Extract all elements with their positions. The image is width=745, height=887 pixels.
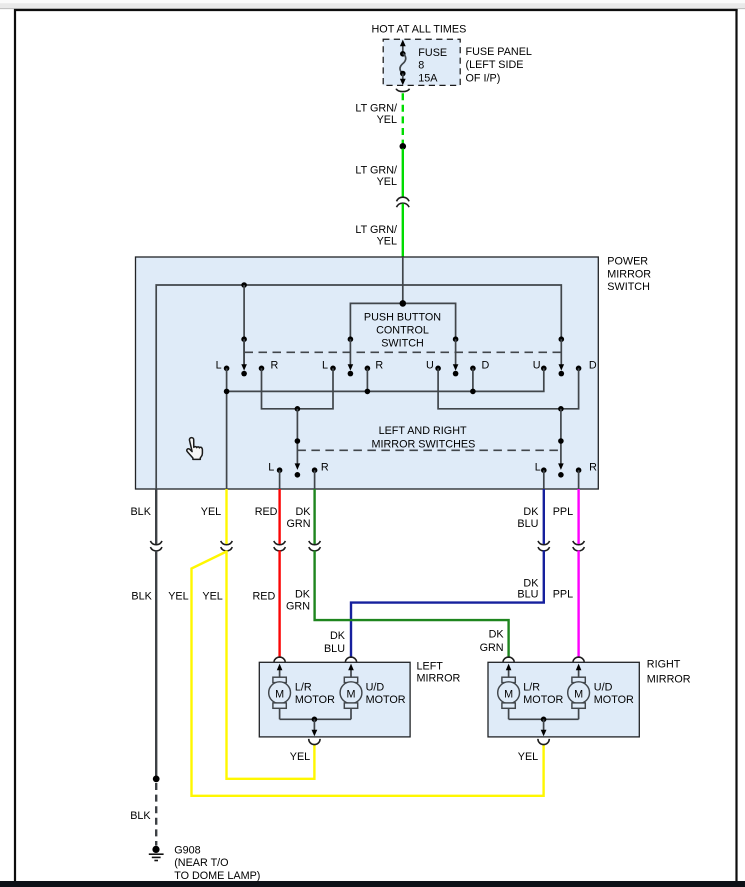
push button control switch bracket	[350, 303, 455, 339]
contact R1	[259, 366, 265, 372]
U/D motor right mirror	[568, 664, 590, 720]
frame top border	[14, 9, 738, 11]
wire: LT GRN/YEL solid into switch	[402, 204, 404, 258]
fuse F8 symbol	[400, 40, 406, 86]
bottom contact R (left mirror switch)	[312, 467, 318, 473]
svg-text:RIGHT: RIGHT	[647, 659, 681, 671]
svg-text:SWITCH: SWITCH	[381, 337, 424, 349]
svg-text:R: R	[321, 461, 329, 473]
node left mirror common	[312, 717, 318, 723]
wire: R2 riser	[366, 368, 368, 391]
svg-text:(NEAR T/O: (NEAR T/O	[174, 857, 228, 869]
svg-text:GRN: GRN	[480, 642, 504, 654]
svg-text:YEL: YEL	[168, 591, 188, 603]
svg-text:D: D	[482, 360, 490, 372]
wire BLK lower	[155, 550, 157, 776]
svg-text:DK: DK	[489, 628, 505, 640]
svg-text:HOT AT ALL TIMES: HOT AT ALL TIMES	[372, 23, 467, 35]
contact U1	[435, 366, 441, 372]
svg-text:YEL: YEL	[377, 114, 397, 126]
pole 4 pivot, arrow, contact	[559, 336, 565, 342]
wire BLK upper	[155, 489, 157, 544]
svg-text:M: M	[275, 688, 284, 700]
pole 3 pivot, arrow, contact	[453, 336, 459, 342]
svg-text:U: U	[426, 360, 434, 372]
wire DK GRN to right mirror L/R	[315, 550, 509, 658]
svg-text:PUSH BUTTON: PUSH BUTTON	[364, 312, 441, 324]
svg-text:MIRROR: MIRROR	[647, 674, 691, 686]
wire BLK dashed to ground	[155, 783, 157, 846]
svg-text:MOTOR: MOTOR	[366, 694, 406, 706]
wire YEL branch to right mirror	[192, 552, 544, 796]
contact L1	[224, 366, 230, 372]
svg-text:POWER: POWER	[607, 255, 648, 267]
svg-text:LEFT AND RIGHT: LEFT AND RIGHT	[379, 425, 467, 437]
wire: DK GRN exit stub	[314, 470, 316, 489]
left mirror box	[259, 662, 410, 737]
wire: inner top bus with corners	[156, 285, 561, 489]
svg-text:YEL: YEL	[290, 751, 310, 763]
L/R motor right mirror	[498, 664, 520, 720]
svg-text:L: L	[268, 461, 274, 473]
mirror select pole left	[296, 409, 298, 464]
contact R2	[365, 366, 371, 372]
mouse hand cursor	[187, 438, 203, 460]
svg-text:OF I/P): OF I/P)	[466, 72, 501, 84]
svg-text:L: L	[535, 461, 541, 473]
wire: left mirror common bus	[280, 718, 351, 720]
splice node on LT GRN/YEL	[400, 143, 407, 150]
bottom dark taskbar	[0, 881, 745, 887]
splice node on BLK	[153, 776, 160, 783]
wire: feed inside switch box	[402, 257, 404, 303]
svg-text:GRN: GRN	[287, 518, 311, 530]
connector on RED	[274, 541, 286, 545]
svg-text:DK: DK	[523, 506, 539, 518]
svg-text:(LEFT SIDE: (LEFT SIDE	[466, 59, 524, 71]
svg-text:LT GRN/: LT GRN/	[355, 102, 397, 114]
wire DK BLU upper	[543, 489, 545, 544]
pole 1 pivot, arrow, contact	[241, 336, 247, 342]
svg-text:MIRROR: MIRROR	[417, 673, 461, 685]
svg-text:YEL: YEL	[377, 236, 397, 248]
svg-text:L: L	[322, 360, 328, 372]
wire: PPL exit stub	[578, 470, 580, 489]
connector on BLK	[150, 541, 162, 545]
frame right border	[735, 9, 737, 881]
bus 1 L1-R2-D1-U2	[227, 368, 544, 391]
wire: RED exit stub	[279, 470, 281, 489]
svg-text:CONTROL: CONTROL	[376, 325, 429, 337]
bus 2 left R1-L2	[262, 368, 334, 409]
svg-text:FUSE PANEL: FUSE PANEL	[466, 46, 532, 58]
wire PPL upper	[577, 489, 579, 544]
svg-text:M: M	[504, 688, 513, 700]
dashed linkage row 1	[245, 351, 562, 353]
frame left border	[14, 9, 16, 881]
svg-text:YEL: YEL	[518, 751, 538, 763]
contact U2	[541, 366, 547, 372]
wire: LT GRN/YEL dashed segment from fuse	[402, 93, 404, 143]
svg-text:L/R: L/R	[523, 682, 540, 694]
fuse panel box	[383, 39, 460, 85]
power mirror switch box	[136, 257, 599, 489]
svg-text:R: R	[271, 360, 279, 372]
svg-text:U/D: U/D	[594, 682, 613, 694]
svg-text:G908: G908	[174, 845, 200, 857]
mirror select pole right	[560, 409, 562, 464]
svg-text:DK: DK	[295, 589, 311, 601]
U/D motor left mirror	[340, 664, 362, 720]
wire: right mirror common drop arrow	[543, 719, 545, 730]
connector on DK BLU	[538, 541, 550, 545]
bottom contact R (right mirror switch)	[576, 467, 582, 473]
svg-text:RED: RED	[255, 506, 278, 518]
svg-text:SWITCH: SWITCH	[607, 281, 650, 293]
svg-text:BLU: BLU	[517, 518, 538, 530]
wire: D1 riser	[472, 368, 474, 391]
right mirror box	[488, 662, 639, 737]
svg-text:U: U	[533, 360, 541, 372]
svg-text:BLK: BLK	[130, 810, 151, 822]
svg-text:GRN: GRN	[286, 601, 310, 613]
svg-text:MIRROR: MIRROR	[607, 269, 651, 281]
wire: pole 1 drop	[243, 285, 245, 365]
svg-text:MOTOR: MOTOR	[295, 694, 335, 706]
svg-text:MIRROR SWITCHES: MIRROR SWITCHES	[372, 438, 476, 450]
bottom contact L (left mirror switch)	[277, 467, 283, 473]
svg-text:L: L	[216, 360, 222, 372]
contact D2	[576, 366, 582, 372]
svg-text:M: M	[347, 688, 356, 700]
connector cup below right mirror	[538, 739, 549, 745]
svg-text:U/D: U/D	[366, 682, 385, 694]
node on inner top bus	[241, 282, 247, 288]
wire DK GRN upper	[313, 489, 315, 544]
svg-text:LEFT: LEFT	[417, 660, 444, 672]
node feed to bracket	[400, 300, 407, 307]
svg-text:BLK: BLK	[131, 591, 152, 603]
contact L2	[330, 366, 336, 372]
connector on PPL	[573, 541, 585, 545]
svg-text:8: 8	[418, 60, 424, 72]
connector cup below fuse panel	[396, 89, 409, 92]
svg-text:R: R	[589, 461, 597, 473]
svg-text:PPL: PPL	[553, 506, 573, 518]
svg-text:TO DOME LAMP): TO DOME LAMP)	[174, 870, 260, 882]
wire: left mirror common drop arrow	[313, 719, 315, 730]
wire: right mirror common bus	[509, 718, 579, 720]
dashed linkage row 2	[297, 449, 561, 451]
svg-text:YEL: YEL	[201, 506, 221, 518]
svg-text:BLU: BLU	[324, 643, 345, 655]
wire YEL main to left mirror	[227, 550, 315, 778]
connector on YEL	[221, 541, 233, 545]
in-line connector on LT GRN/YEL (two caps)	[397, 197, 410, 201]
svg-text:PPL: PPL	[553, 589, 573, 601]
svg-text:DK: DK	[330, 630, 346, 642]
contact D1	[470, 366, 476, 372]
pole 2 pivot, arrow, contact	[348, 336, 354, 342]
connector cap DK GRN into right mirror	[503, 657, 514, 662]
connector cap DK BLU into left mirror	[345, 657, 356, 662]
wire: DK BLU exit stub	[543, 470, 545, 489]
svg-text:DK: DK	[296, 506, 312, 518]
svg-text:BLU: BLU	[517, 589, 538, 601]
connector cap RED into left mirror	[274, 657, 285, 662]
bus 2 right U1-D2	[438, 368, 578, 409]
node right mirror common	[541, 717, 547, 723]
svg-text:M: M	[574, 688, 583, 700]
svg-text:MOTOR: MOTOR	[594, 694, 634, 706]
svg-text:BLK: BLK	[130, 506, 151, 518]
wire PPL to right mirror U/D	[577, 550, 579, 658]
ground G908 symbol	[149, 846, 164, 861]
svg-text:MOTOR: MOTOR	[523, 694, 563, 706]
svg-text:LT GRN/: LT GRN/	[355, 224, 397, 236]
wire: LT GRN/YEL solid to connector	[402, 149, 404, 198]
svg-text:L/R: L/R	[295, 682, 312, 694]
wire YEL upper	[225, 489, 227, 544]
connector cap PPL into right mirror	[573, 657, 584, 662]
connector on DK GRN	[309, 541, 321, 545]
svg-text:FUSE: FUSE	[418, 47, 447, 59]
svg-text:D: D	[589, 360, 597, 372]
connector cup below left mirror	[309, 739, 320, 745]
L/R motor left mirror	[269, 664, 291, 720]
bottom contact L (right mirror switch)	[541, 467, 547, 473]
wire RED upper	[278, 489, 280, 544]
svg-text:15A: 15A	[418, 73, 438, 85]
svg-text:YEL: YEL	[377, 176, 397, 188]
svg-text:YEL: YEL	[202, 591, 222, 603]
wire: L1 down through bus to YEL exit	[226, 368, 228, 489]
top chrome strip	[0, 0, 745, 3]
wire RED to left mirror	[278, 550, 280, 658]
svg-text:R: R	[375, 360, 383, 372]
svg-text:RED: RED	[253, 591, 276, 603]
svg-text:LT GRN/: LT GRN/	[355, 164, 397, 176]
wire DK BLU to left mirror U/D	[351, 550, 544, 658]
